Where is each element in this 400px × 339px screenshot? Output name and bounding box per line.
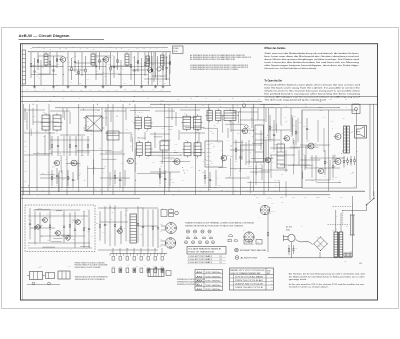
resistor xyxy=(235,140,237,149)
right edge wires xyxy=(369,104,371,200)
right column cluster xyxy=(343,156,345,161)
switch contacts row2 xyxy=(112,268,115,273)
resistor/cap xyxy=(166,56,168,68)
IF cluster stage3 upper xyxy=(183,116,191,129)
dashed AF box xyxy=(25,205,95,252)
resistor xyxy=(104,206,106,224)
transistor Q10 xyxy=(308,143,314,149)
plug area resistors xyxy=(288,245,290,249)
cord xyxy=(296,240,313,245)
wire mid bus1 xyxy=(21,186,302,188)
output stage box xyxy=(302,110,357,188)
resistor xyxy=(51,170,53,177)
resistor/cap xyxy=(49,52,51,62)
resistor xyxy=(61,170,63,188)
transistor Q8 converter xyxy=(242,128,247,133)
resistor xyxy=(74,212,76,230)
resistor/cap xyxy=(40,60,42,85)
small box (107,131) xyxy=(107,131,119,140)
resistor xyxy=(109,205,111,246)
resistor/cap xyxy=(99,52,101,70)
header rule xyxy=(19,39,105,41)
transistor Q14b xyxy=(36,225,40,229)
small boxes above table B xyxy=(244,240,252,245)
resistor/cap xyxy=(95,52,97,66)
resistor xyxy=(39,212,41,227)
drop wires to switch xyxy=(112,248,114,254)
switch S2 xyxy=(367,198,374,204)
resistor xyxy=(295,120,297,131)
resistor xyxy=(273,120,275,134)
wire top bus xyxy=(28,51,171,53)
resistor/cap xyxy=(148,52,150,60)
wire af links xyxy=(28,215,88,217)
electrolytic C51 xyxy=(46,273,55,279)
ground xyxy=(67,85,69,86)
legend circle X xyxy=(235,248,239,252)
junction dots IF xyxy=(134,179,137,182)
legend circle dot xyxy=(235,256,239,260)
diode D3 xyxy=(244,125,248,129)
wire top rail2 xyxy=(32,47,168,49)
resistor/cap xyxy=(81,52,83,76)
resistor xyxy=(63,211,65,227)
bridge rectifier D5 xyxy=(314,237,328,251)
resistor xyxy=(124,170,126,186)
transistor Q7 xyxy=(221,155,226,160)
link wires IF xyxy=(24,109,45,111)
ground xyxy=(162,85,164,86)
resistor/cap xyxy=(155,52,157,78)
resistor/cap xyxy=(67,52,69,85)
resistor xyxy=(114,170,116,176)
resistor xyxy=(72,172,74,179)
socket V2 xyxy=(165,238,176,249)
rf coil T2 xyxy=(91,54,95,65)
transistor Q13 xyxy=(318,168,323,173)
stage4 text-dense block xyxy=(205,141,223,167)
resistor xyxy=(88,210,90,228)
table A2 xyxy=(195,270,223,291)
trimmer C2 xyxy=(148,68,153,73)
speaker SP xyxy=(355,126,367,139)
resistor/cap xyxy=(30,52,32,64)
resistor xyxy=(120,211,122,227)
switch contacts row xyxy=(112,257,115,261)
transistor Q14c xyxy=(66,236,70,240)
wire bus2 xyxy=(21,100,262,102)
resistor xyxy=(147,210,149,247)
resistor xyxy=(137,206,139,223)
extra horizontals IF xyxy=(84,129,93,131)
transistor Q17 xyxy=(118,229,123,234)
dashed linkage xyxy=(328,224,350,226)
resistor xyxy=(83,211,85,228)
transistor Q11 xyxy=(335,134,341,140)
resistor/cap xyxy=(71,58,73,68)
tuning cluster xyxy=(146,56,150,66)
transistor Q9 driver xyxy=(284,136,289,141)
resistor/cap xyxy=(113,56,115,67)
IF cluster stage2 upper xyxy=(135,118,142,129)
electrolytic C50 xyxy=(30,272,43,280)
resistor/cap xyxy=(134,56,136,70)
left tall boxes xyxy=(255,125,263,162)
wire agc bus xyxy=(21,91,171,93)
resistor xyxy=(99,211,101,225)
transistor Q12 xyxy=(335,159,341,165)
small box (160,141) xyxy=(160,141,169,150)
transistor Q1 xyxy=(60,57,65,62)
wire mid rails xyxy=(30,66,63,68)
resistor/cap xyxy=(85,56,87,69)
wire mid bus4 xyxy=(21,197,140,199)
converter verticals xyxy=(241,140,243,160)
earphone jack J1 xyxy=(352,105,360,114)
table A header box xyxy=(187,247,226,255)
resistor xyxy=(291,115,293,135)
wire bottom bus xyxy=(21,84,171,86)
resistor/cap xyxy=(141,58,143,85)
potentiometer VR1 xyxy=(148,269,164,277)
IF cluster stage1 upper xyxy=(42,115,50,130)
ground xyxy=(102,85,104,86)
resistor/cap xyxy=(102,58,104,85)
transistor Q3 xyxy=(54,160,59,165)
wire B+ bus xyxy=(21,96,377,98)
resistor xyxy=(29,208,31,223)
diode D2 xyxy=(242,104,246,108)
transformer leads xyxy=(335,210,337,232)
ground xyxy=(155,85,157,86)
svg-text:AeB-W — Circuit Diagram: AeB-W — Circuit Diagram xyxy=(19,34,70,38)
resistor xyxy=(204,170,206,176)
resistor xyxy=(332,155,334,166)
resistor xyxy=(56,168,58,175)
upper verticals xyxy=(24,108,26,120)
resistor xyxy=(49,211,51,225)
resistor xyxy=(142,207,144,226)
bottom ps bus xyxy=(268,257,352,259)
transistor Q2 xyxy=(103,57,108,62)
antenna L1 rod xyxy=(22,50,25,84)
transistor Q18 xyxy=(266,158,271,163)
resistor/cap xyxy=(169,52,171,74)
resistor xyxy=(159,168,161,175)
resistor/cap xyxy=(74,52,76,62)
resistor xyxy=(306,118,308,128)
resistor/cap xyxy=(130,52,132,65)
scan veil xyxy=(21,44,377,300)
resistor R52 xyxy=(344,253,352,257)
label box top xyxy=(173,46,184,54)
symbol row xyxy=(186,230,189,233)
transistor Q6 xyxy=(174,159,180,165)
ground xyxy=(53,85,55,86)
resistor/cap xyxy=(137,52,139,72)
driver transformer T10 xyxy=(130,214,137,243)
socket V1 xyxy=(166,223,177,234)
socket V3 xyxy=(244,232,254,242)
crystal filter X1 xyxy=(86,116,102,131)
transistor Q14 xyxy=(43,218,48,223)
resistor xyxy=(315,155,317,180)
transistor Q16 xyxy=(76,220,81,225)
resistor xyxy=(67,170,69,177)
wire mid bus3 xyxy=(21,194,330,196)
resistor/cap xyxy=(144,52,146,63)
wire mid bus2 xyxy=(21,190,365,192)
resistor xyxy=(269,115,271,126)
vertical feed xyxy=(351,203,353,257)
resistor xyxy=(69,213,71,225)
jack cluster xyxy=(161,210,167,217)
IF cluster stage3 lower xyxy=(184,143,191,156)
wire bus3 xyxy=(150,103,377,105)
resistor/cap xyxy=(56,52,58,68)
switch row ticks xyxy=(110,253,167,255)
inner left rail xyxy=(21,44,23,300)
resistor xyxy=(125,209,127,242)
resistor xyxy=(164,170,166,178)
transistor Q4 xyxy=(71,160,77,166)
IF cluster stage2 lower xyxy=(137,143,143,156)
resistor R40 xyxy=(267,216,269,233)
resistor/cap xyxy=(162,52,164,67)
socket V4 xyxy=(260,205,270,215)
resistor xyxy=(169,172,171,186)
choke L5 xyxy=(58,271,70,279)
IF cluster stage4 upper wide xyxy=(207,111,213,121)
stage divider wires xyxy=(23,104,25,195)
resistor xyxy=(34,211,36,226)
resistor xyxy=(109,172,111,186)
resistor xyxy=(215,170,217,186)
resistor/cap xyxy=(110,52,112,67)
transistor Q5 xyxy=(128,158,134,164)
diode D4 xyxy=(157,67,161,71)
wire bus4 xyxy=(55,107,340,109)
resistor/cap xyxy=(34,58,36,71)
AC plug P1 xyxy=(288,234,295,241)
resistor/cap xyxy=(120,60,122,85)
ground xyxy=(141,85,143,86)
resistor/cap xyxy=(151,56,153,85)
resistor xyxy=(152,209,154,226)
resistor xyxy=(209,172,211,179)
stage1 lower cluster xyxy=(51,136,53,145)
resistor xyxy=(114,205,116,224)
rf coil T1 xyxy=(44,54,48,65)
power transformer T11 xyxy=(334,232,338,257)
ground xyxy=(85,85,87,86)
ground xyxy=(34,85,36,86)
rod element xyxy=(350,215,352,235)
transistor Q15 xyxy=(56,231,61,236)
resistor/cap xyxy=(78,60,80,85)
schematic border frame xyxy=(21,44,378,300)
output transformer T9 xyxy=(344,126,347,153)
wires bottom left xyxy=(27,284,60,286)
half circle symbols xyxy=(229,234,233,236)
wire links top band xyxy=(31,65,57,67)
table B xyxy=(230,268,274,290)
resistor xyxy=(248,140,250,165)
resistor xyxy=(324,150,326,161)
resistor/cap xyxy=(117,52,119,70)
ground xyxy=(120,85,122,86)
resistor/cap xyxy=(53,56,55,70)
resistor xyxy=(239,145,241,157)
resistor/cap xyxy=(37,52,39,70)
resistor xyxy=(157,209,159,228)
osc coil T3 xyxy=(125,54,129,65)
resistor xyxy=(119,172,121,179)
